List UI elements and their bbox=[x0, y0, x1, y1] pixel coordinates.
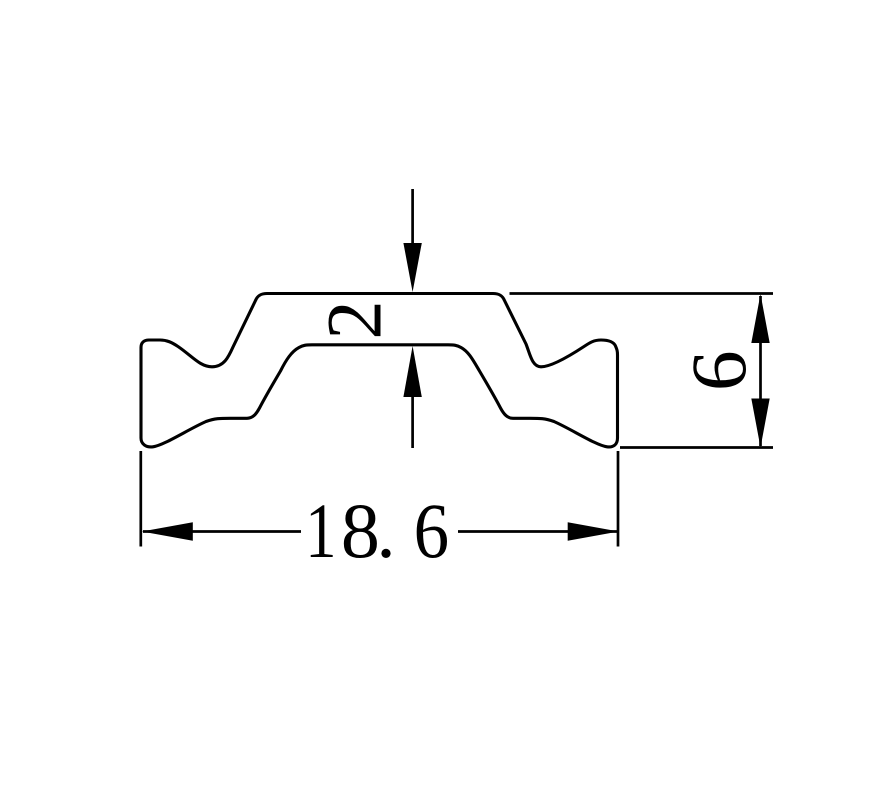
svg-text:6: 6 bbox=[414, 489, 449, 575]
svg-text:8: 8 bbox=[341, 487, 380, 574]
svg-text:1: 1 bbox=[305, 489, 336, 575]
svg-text:6: 6 bbox=[677, 350, 763, 391]
svg-text:2: 2 bbox=[310, 301, 397, 340]
svg-text:.: . bbox=[376, 487, 396, 574]
